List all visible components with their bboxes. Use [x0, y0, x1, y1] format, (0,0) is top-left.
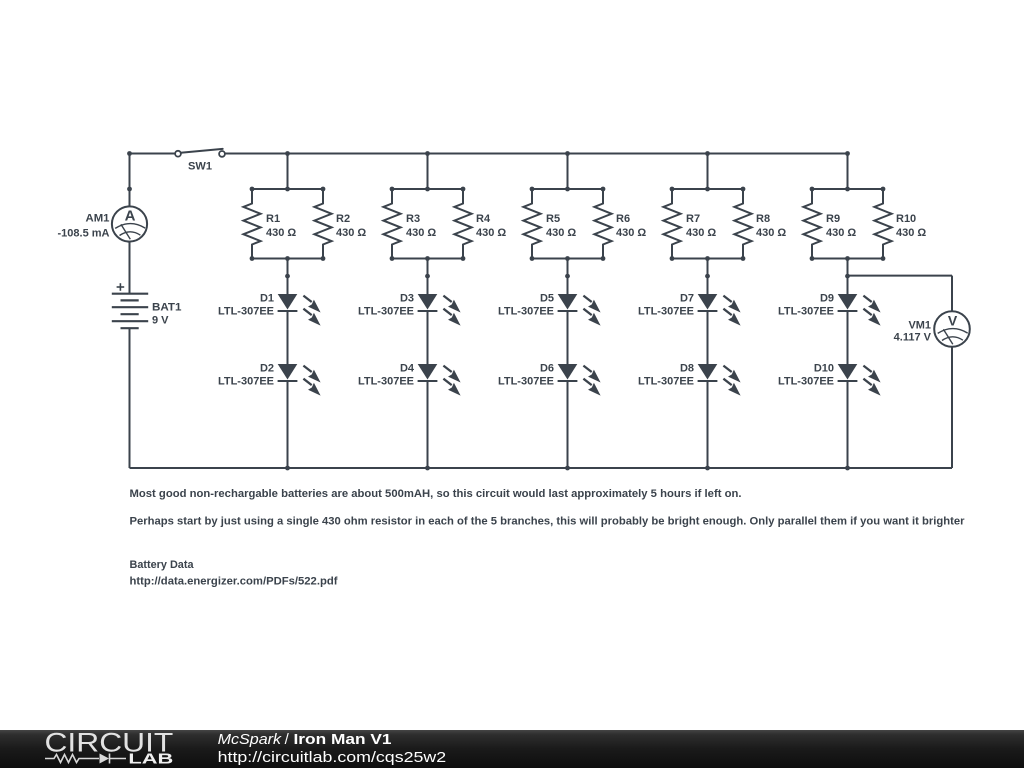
node branch 5 resistor bottom rail center — [845, 256, 850, 261]
node branch 1 resistor top rail left — [250, 187, 255, 192]
wire branch 4 vertical (top rail to resistor rail) — [707, 154, 709, 190]
svg-text:430 Ω: 430 Ω — [686, 227, 716, 239]
LED D4 — [358, 363, 461, 396]
wire branch 3 vertical (top rail to resistor rail) — [567, 154, 569, 190]
wire branch 1 resistor top rail — [252, 188, 323, 190]
battery BAT1 — [112, 283, 182, 328]
wire branch 1 resistor bottom rail — [252, 258, 323, 260]
LED D9 — [778, 293, 881, 326]
node branch 5 resistor bottom rail left — [810, 256, 815, 261]
wire branch 2 resistor top rail — [392, 188, 463, 190]
svg-text:LTL-307EE: LTL-307EE — [358, 376, 414, 388]
node branch 2 resistor top rail center — [425, 187, 430, 192]
wire branch 3 LED to bottom rail — [567, 381, 569, 468]
wire voltmeter vertical top — [951, 276, 953, 312]
node branch 2 resistor bottom rail left — [390, 256, 395, 261]
node branch 2 resistor top rail right — [461, 187, 466, 192]
svg-text:Battery Data: Battery Data — [130, 559, 195, 571]
wire branch 5 LED to bottom rail — [847, 381, 849, 468]
svg-text:D2: D2 — [260, 363, 274, 375]
svg-text:VM1: VM1 — [909, 319, 932, 331]
LED D3 — [358, 293, 461, 326]
LED D6 — [498, 363, 601, 396]
svg-text:R1: R1 — [266, 213, 280, 225]
node branch 2 bottom rail junction — [425, 466, 430, 471]
svg-text:430 Ω: 430 Ω — [826, 227, 856, 239]
svg-text:LTL-307EE: LTL-307EE — [218, 306, 274, 318]
node branch 4 resistor bottom rail left — [670, 256, 675, 261]
node branch 1 resistor bottom rail left — [250, 256, 255, 261]
svg-text:430 Ω: 430 Ω — [756, 227, 786, 239]
wire branch 5 resistor bottom rail — [812, 258, 883, 260]
wire branch 2 between LEDs — [427, 311, 429, 364]
resistor R9 — [803, 189, 856, 259]
svg-text:D9: D9 — [820, 293, 834, 305]
svg-text:R2: R2 — [336, 213, 350, 225]
node branch 3 mid junction — [565, 274, 570, 279]
svg-text:SW1: SW1 — [188, 160, 212, 172]
node branch 1 bottom rail junction — [285, 466, 290, 471]
wire branch 2 LED to bottom rail — [427, 381, 429, 468]
node top rail junction branch 1 — [285, 151, 290, 156]
wire branch 1 vertical to LED D1 — [287, 259, 289, 295]
svg-text:R3: R3 — [406, 213, 420, 225]
svg-text:D8: D8 — [680, 363, 694, 375]
svg-text:430 Ω: 430 Ω — [406, 227, 436, 239]
svg-text:R7: R7 — [686, 213, 700, 225]
svg-text:R6: R6 — [616, 213, 630, 225]
svg-text:LTL-307EE: LTL-307EE — [498, 306, 554, 318]
wire branch 4 resistor top rail — [672, 188, 743, 190]
resistor R4 — [454, 189, 506, 259]
svg-text:Most good non-rechargable batt: Most good non-rechargable batteries are … — [130, 488, 742, 500]
svg-text:430 Ω: 430 Ω — [546, 227, 576, 239]
node branch 2 resistor top rail left — [390, 187, 395, 192]
svg-text:4.117 V: 4.117 V — [894, 331, 932, 343]
node top rail junction branch 3 — [565, 151, 570, 156]
resistor R6 — [594, 189, 646, 259]
svg-text:D4: D4 — [400, 363, 415, 375]
wire branch 5 vertical to LED D9 — [847, 259, 849, 295]
LED D5 — [498, 293, 601, 326]
wire branch 1 between LEDs — [287, 311, 289, 364]
LED D7 — [638, 293, 741, 326]
svg-text:AM1: AM1 — [86, 212, 110, 224]
svg-text:D7: D7 — [680, 293, 694, 305]
wire branch 3 between LEDs — [567, 311, 569, 364]
resistor R1 — [243, 189, 296, 259]
node branch 1 resistor bottom rail center — [285, 256, 290, 261]
wire top rail left segment — [130, 153, 176, 155]
wire voltmeter to bottom rail — [951, 347, 953, 468]
wire branch 5 vertical (top rail to resistor rail) — [847, 154, 849, 190]
resistor R2 — [314, 189, 366, 259]
svg-text:D10: D10 — [814, 363, 834, 375]
wire left vertical top (rail to ammeter) — [129, 154, 131, 207]
wire branch 5 between LEDs — [847, 311, 849, 364]
wire branch 2 resistor bottom rail — [392, 258, 463, 260]
svg-text:http://data.energizer.com/PDFs: http://data.energizer.com/PDFs/522.pdf — [130, 575, 338, 587]
voltmeter VM1 — [894, 311, 970, 347]
wire battery to bottom rail — [129, 328, 131, 468]
wire branch 3 resistor top rail — [532, 188, 603, 190]
svg-text:A: A — [125, 208, 136, 225]
svg-text:LAB: LAB — [128, 751, 173, 768]
wire branch 4 between LEDs — [707, 311, 709, 364]
resistor R5 — [523, 189, 576, 259]
node branch 4 resistor bottom rail center — [705, 256, 710, 261]
node branch 4 resistor top rail left — [670, 187, 675, 192]
svg-text:LTL-307EE: LTL-307EE — [358, 306, 414, 318]
node top rail junction branch 5 — [845, 151, 850, 156]
svg-text:McSpark: McSpark — [218, 731, 283, 748]
svg-text:R8: R8 — [756, 213, 770, 225]
resistor R10 — [874, 189, 926, 259]
svg-text:LTL-307EE: LTL-307EE — [218, 376, 274, 388]
wire top rail right segment — [225, 153, 848, 155]
node branch 2 resistor bottom rail center — [425, 256, 430, 261]
node branch 1 resistor top rail center — [285, 187, 290, 192]
node branch 4 resistor top rail center — [705, 187, 710, 192]
node branch 4 mid junction — [705, 274, 710, 279]
svg-text:D5: D5 — [540, 293, 554, 305]
svg-text:LTL-307EE: LTL-307EE — [638, 306, 694, 318]
node top-left corner — [127, 151, 132, 156]
LED D8 — [638, 363, 741, 396]
node branch 2 resistor bottom rail right — [461, 256, 466, 261]
ammeter AM1 — [58, 206, 148, 241]
node branch 3 bottom rail junction — [565, 466, 570, 471]
node branch 5 resistor top rail right — [881, 187, 886, 192]
node branch 4 resistor top rail right — [741, 187, 746, 192]
resistor R3 — [383, 189, 436, 259]
svg-text:9 V: 9 V — [152, 315, 169, 327]
node branch 3 resistor bottom rail right — [601, 256, 606, 261]
svg-text:R10: R10 — [896, 213, 916, 225]
node branch 1 resistor top rail right — [321, 187, 326, 192]
wire branch 1 LED to bottom rail — [287, 381, 289, 468]
node branch 3 resistor top rail left — [530, 187, 535, 192]
LED D10 — [778, 363, 881, 396]
node top rail junction branch 2 — [425, 151, 430, 156]
wire branch 2 vertical (top rail to resistor rail) — [427, 154, 429, 190]
wire branch 3 resistor bottom rail — [532, 258, 603, 260]
svg-text:V: V — [948, 313, 958, 329]
LED D1 — [218, 293, 321, 326]
svg-text:D6: D6 — [540, 363, 554, 375]
node branch 4 bottom rail junction — [705, 466, 710, 471]
node branch 2 mid junction — [425, 274, 430, 279]
svg-text:D3: D3 — [400, 293, 414, 305]
wire branch 5 resistor top rail — [812, 188, 883, 190]
svg-text:Perhaps start by just using a: Perhaps start by just using a single 430… — [130, 515, 966, 527]
resistor R8 — [734, 189, 786, 259]
wire branch 4 LED to bottom rail — [707, 381, 709, 468]
switch SW1 — [175, 149, 225, 172]
svg-text:http://circuitlab.com/cqs25w2: http://circuitlab.com/cqs25w2 — [218, 749, 447, 766]
svg-text:430 Ω: 430 Ω — [616, 227, 646, 239]
node branch 5 mid junction — [845, 274, 850, 279]
node branch 5 resistor top rail left — [810, 187, 815, 192]
wire branch 4 vertical to LED D7 — [707, 259, 709, 295]
node branch 3 resistor bottom rail center — [565, 256, 570, 261]
node branch 5 resistor top rail center — [845, 187, 850, 192]
wire bottom rail — [130, 467, 953, 469]
svg-text:430 Ω: 430 Ω — [896, 227, 926, 239]
resistor R7 — [663, 189, 716, 259]
node branch 5 bottom rail junction — [845, 466, 850, 471]
svg-text:LTL-307EE: LTL-307EE — [498, 376, 554, 388]
svg-text:430 Ω: 430 Ω — [336, 227, 366, 239]
svg-text:BAT1: BAT1 — [152, 302, 182, 314]
svg-text:D1: D1 — [260, 293, 274, 305]
svg-text:R5: R5 — [546, 213, 560, 225]
svg-text:-108.5 mA: -108.5 mA — [58, 227, 110, 239]
node left wire junction — [127, 187, 132, 192]
node branch 5 resistor bottom rail right — [881, 256, 886, 261]
node branch 1 mid junction — [285, 274, 290, 279]
wire branch 4 resistor bottom rail — [672, 258, 743, 260]
wire ammeter to battery — [129, 242, 131, 294]
CircuitLab logo resistor-diode glyph — [45, 754, 126, 764]
node top rail junction branch 4 — [705, 151, 710, 156]
node branch 1 resistor bottom rail right — [321, 256, 326, 261]
node branch 3 resistor bottom rail left — [530, 256, 535, 261]
svg-text:LTL-307EE: LTL-307EE — [778, 376, 834, 388]
svg-text:R9: R9 — [826, 213, 840, 225]
wire branch 3 vertical to LED D5 — [567, 259, 569, 295]
svg-text:LTL-307EE: LTL-307EE — [638, 376, 694, 388]
LED D2 — [218, 363, 321, 396]
node branch 3 resistor top rail right — [601, 187, 606, 192]
svg-text:R4: R4 — [476, 213, 491, 225]
node branch 4 resistor bottom rail right — [741, 256, 746, 261]
svg-text:LTL-307EE: LTL-307EE — [778, 306, 834, 318]
svg-text:Iron Man V1: Iron Man V1 — [294, 731, 392, 748]
wire voltmeter top horizontal — [848, 275, 953, 277]
wire branch 1 vertical (top rail to resistor rail) — [287, 154, 289, 190]
svg-text:430 Ω: 430 Ω — [266, 227, 296, 239]
svg-text:430 Ω: 430 Ω — [476, 227, 506, 239]
node branch 3 resistor top rail center — [565, 187, 570, 192]
wire branch 2 vertical to LED D3 — [427, 259, 429, 295]
